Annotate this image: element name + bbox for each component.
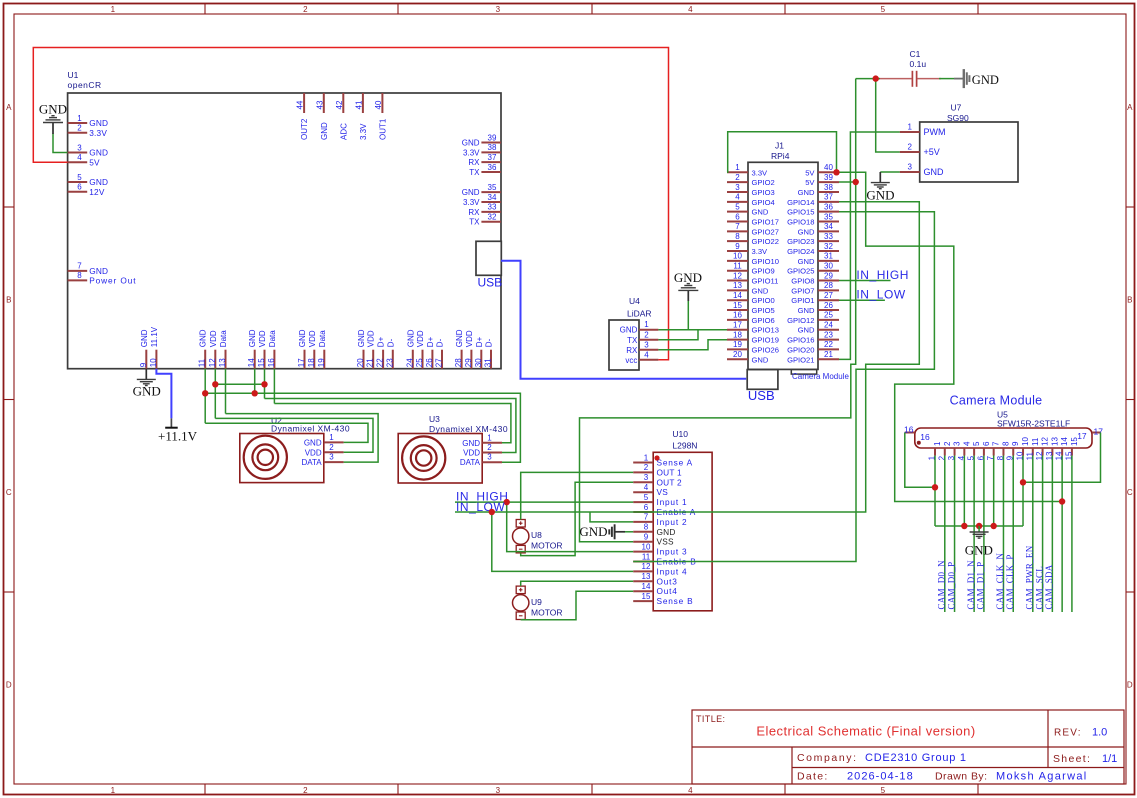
svg-text:1/1: 1/1	[1102, 753, 1117, 765]
svg-text:VDD: VDD	[305, 448, 322, 457]
wire: U5 pin 13 down	[1051, 456, 1053, 613]
svg-text:1.0: 1.0	[1092, 727, 1107, 739]
U1 pin 42 ADC	[342, 93, 344, 113]
U4 LiDAR box	[609, 320, 639, 370]
J1 pin 37 GPIO14	[818, 201, 839, 203]
svg-text:2: 2	[329, 443, 334, 452]
svg-text:Camera Module: Camera Module	[950, 394, 1043, 408]
wire: GND tie pins 11-14 and on to U3 DATA	[205, 393, 520, 462]
svg-text:36: 36	[824, 202, 833, 211]
svg-text:17: 17	[1094, 427, 1104, 437]
svg-text:21: 21	[824, 350, 833, 359]
svg-text:20: 20	[733, 350, 742, 359]
svg-text:14: 14	[733, 291, 742, 300]
svg-text:MOTOR: MOTOR	[531, 607, 562, 617]
svg-text:2026-04-18: 2026-04-18	[847, 771, 914, 783]
svg-text:32: 32	[488, 213, 497, 222]
U1 pin 7 GND	[68, 270, 88, 272]
svg-text:D+: D+	[377, 336, 386, 347]
svg-text:Company:: Company:	[797, 752, 858, 764]
svg-text:GND: GND	[89, 118, 108, 128]
svg-text:15: 15	[1070, 437, 1079, 446]
junction pin16/pin1	[932, 484, 938, 490]
J1 pin 8 GPIO22	[727, 240, 748, 242]
svg-text:1: 1	[487, 433, 492, 442]
U10 pin 12 Input 4	[633, 570, 653, 572]
svg-text:GND: GND	[462, 439, 480, 448]
svg-text:GPIO25: GPIO25	[787, 267, 814, 276]
U10 pin 8 GND	[633, 531, 653, 533]
U3 pin 1 GND	[482, 442, 502, 444]
wire: U1 pin3 GND to ground symbol	[53, 134, 68, 153]
wire: C1 right lead to GND flag	[939, 78, 954, 80]
U1 pin 15 VDD	[264, 350, 266, 369]
svg-text:13: 13	[218, 358, 227, 367]
svg-text:3.3V: 3.3V	[752, 247, 769, 256]
svg-text:5V: 5V	[805, 168, 815, 177]
svg-text:U10: U10	[672, 429, 688, 439]
U3 motor rings	[402, 436, 445, 479]
U5 pin1 polarity dot	[917, 441, 921, 445]
svg-text:18: 18	[307, 358, 316, 367]
svg-text:3: 3	[644, 473, 649, 482]
svg-text:GND: GND	[674, 270, 702, 285]
svg-text:15: 15	[733, 301, 742, 310]
J1 pin 39 5V	[818, 181, 839, 183]
J1 pin 28 GPIO7	[818, 289, 839, 291]
wire: IN_LOW branch to Input 4	[492, 512, 633, 571]
svg-text:11: 11	[1031, 437, 1040, 446]
svg-text:OUT 1: OUT 1	[657, 467, 682, 477]
svg-text:GND: GND	[462, 188, 480, 197]
svg-text:SG90: SG90	[947, 113, 969, 123]
svg-text:11: 11	[642, 552, 651, 561]
svg-text:7: 7	[644, 513, 649, 522]
svg-text:Drawn By:: Drawn By:	[935, 771, 987, 783]
svg-text:GND: GND	[462, 139, 480, 148]
svg-text:34: 34	[488, 193, 497, 202]
U10 pin 6 Enable A	[633, 511, 653, 513]
svg-text:17: 17	[297, 358, 306, 367]
J1 pin 35 GPIO18	[818, 221, 839, 223]
svg-text:26: 26	[425, 358, 434, 367]
svg-text:3: 3	[496, 786, 501, 795]
svg-text:3: 3	[907, 163, 912, 172]
svg-text:9: 9	[735, 242, 740, 251]
svg-text:2: 2	[943, 441, 952, 446]
svg-text:4: 4	[644, 350, 649, 359]
svg-text:9: 9	[139, 362, 148, 367]
svg-text:GPIO24: GPIO24	[787, 247, 814, 256]
U4 pin 2 TX	[639, 339, 658, 341]
U10 pin 3 OUT 2	[633, 481, 653, 483]
U1 pin 4 5V	[68, 161, 88, 163]
J1 pin 6 GPIO17	[727, 221, 748, 223]
wire: U1 USB to J1 USB (blue)	[501, 261, 746, 379]
wire: U5 pin 6 down	[983, 456, 985, 613]
svg-text:openCR: openCR	[68, 80, 102, 90]
U10 pin 2 OUT 1	[633, 471, 653, 473]
svg-text:1: 1	[644, 320, 649, 329]
svg-text:3.3V: 3.3V	[359, 123, 368, 140]
svg-text:J1: J1	[775, 141, 784, 151]
U10 pin 14 Out4	[633, 590, 653, 592]
svg-text:8: 8	[77, 271, 82, 280]
U5 pin 7	[993, 448, 995, 456]
J1 pin 11 GPIO9	[727, 270, 748, 272]
wire: U10 Out3 to motor U9 +	[521, 581, 634, 586]
svg-text:GPIO0: GPIO0	[752, 296, 775, 305]
J1 pin 16 GPIO6	[727, 319, 748, 321]
svg-text:33: 33	[488, 203, 497, 212]
U1 pin 19 Data	[323, 350, 325, 369]
svg-text:D-: D-	[485, 338, 494, 347]
svg-text:5V: 5V	[89, 157, 100, 167]
svg-text:6: 6	[77, 183, 82, 192]
wire: U4 GND to ground	[658, 329, 698, 331]
svg-text:2: 2	[77, 124, 82, 133]
svg-text:5: 5	[644, 493, 649, 502]
svg-text:GPIO17: GPIO17	[752, 218, 779, 227]
svg-text:Data: Data	[268, 330, 277, 347]
U4 pin 4 vcc	[639, 359, 658, 361]
svg-text:3.3V: 3.3V	[752, 168, 769, 177]
U1 pin 10 11.1V	[155, 350, 157, 369]
svg-text:GND: GND	[798, 306, 815, 315]
wire: pin15 VDD to U3 VDD	[265, 399, 516, 453]
J1 pin 17 GPIO13	[727, 329, 748, 331]
svg-text:GPIO7: GPIO7	[791, 286, 814, 295]
svg-text:Data: Data	[219, 330, 228, 347]
U5 pin 5	[973, 448, 975, 456]
svg-text:D-: D-	[436, 338, 445, 347]
U1 pin 12 VDD	[214, 350, 216, 369]
U2 pin 2 VDD	[324, 451, 344, 453]
svg-text:Electrical Schematic (Final ve: Electrical Schematic (Final version)	[756, 724, 975, 739]
svg-text:43: 43	[315, 100, 324, 109]
wire: U5 pin17 to pin10	[1023, 433, 1101, 483]
svg-text:6: 6	[735, 212, 740, 221]
svg-text:CAM_D1_N: CAM_D1_N	[966, 560, 976, 610]
svg-text:36: 36	[488, 163, 497, 172]
U2 motor rings	[244, 436, 287, 479]
svg-text:44: 44	[296, 100, 305, 109]
U1 pin 13 Data	[225, 350, 227, 369]
svg-text:Dynamixel XM-430: Dynamixel XM-430	[429, 424, 508, 434]
svg-text:2: 2	[487, 443, 492, 452]
wire: U5 pin 15 down	[1071, 456, 1073, 613]
svg-text:4: 4	[688, 5, 693, 14]
svg-text:30: 30	[824, 262, 833, 271]
svg-text:GND: GND	[133, 384, 161, 399]
svg-text:CAM_CLK_N: CAM_CLK_N	[995, 553, 1005, 610]
svg-text:11: 11	[198, 358, 207, 367]
svg-text:GPIO18: GPIO18	[787, 218, 814, 227]
U10 pin 5 Input 1	[633, 501, 653, 503]
J1 pin 31 GND	[818, 260, 839, 262]
svg-text:RPi4: RPi4	[771, 151, 790, 161]
U5 pin 16	[905, 432, 915, 434]
U1 USB connector box	[476, 241, 501, 275]
svg-text:19: 19	[733, 340, 742, 349]
svg-text:19: 19	[317, 358, 326, 367]
J1 pin 19 GPIO26	[727, 348, 748, 350]
svg-text:41: 41	[355, 100, 364, 109]
svg-text:5: 5	[881, 5, 886, 14]
svg-text:GND: GND	[199, 329, 208, 347]
motor U8	[516, 520, 525, 528]
svg-text:VDD: VDD	[463, 449, 480, 458]
J1 pin 7 GPIO27	[727, 230, 748, 232]
svg-text:U9: U9	[531, 597, 542, 607]
svg-text:35: 35	[488, 183, 497, 192]
J1 pin 22 GPIO20	[818, 348, 839, 350]
ground symbol at U1 left	[52, 123, 54, 135]
J1 pin 38 GND	[818, 191, 839, 193]
U1 pin 29 VDD	[470, 350, 472, 369]
J1 RPi4 connector box	[748, 162, 818, 369]
svg-text:CAM_D0_P: CAM_D0_P	[946, 562, 956, 610]
U1 pin 37 RX	[481, 161, 501, 163]
J1 pin 15 GPIO5	[727, 309, 748, 311]
svg-text:1: 1	[77, 114, 82, 123]
wire: U1 pin10 to +11.1V (blue)	[156, 369, 171, 419]
svg-text:GND: GND	[140, 329, 149, 347]
J1 pin 2 GPIO2	[727, 181, 748, 183]
svg-text:12V: 12V	[89, 187, 105, 197]
J1 pin 5 GND	[727, 211, 748, 213]
svg-text:22: 22	[376, 358, 385, 367]
J1 pin 13 GND	[727, 289, 748, 291]
U5 pin 9	[1012, 448, 1014, 456]
svg-text:GND: GND	[965, 543, 993, 558]
J1 pin 20 GND	[727, 358, 748, 360]
U1 pin 44 OUT2	[303, 93, 305, 113]
svg-text:CAM_D1_P: CAM_D1_P	[976, 562, 986, 610]
svg-text:16: 16	[920, 432, 930, 442]
svg-text:CAM_PWR_EN: CAM_PWR_EN	[1025, 545, 1035, 609]
svg-text:GND: GND	[89, 148, 108, 158]
svg-text:13: 13	[642, 572, 651, 581]
U1 pin 20 GND	[363, 350, 365, 369]
svg-text:31: 31	[824, 252, 833, 261]
svg-text:D: D	[1127, 681, 1133, 690]
U1 pin 39 GND	[481, 142, 501, 144]
U1 pin 35 GND	[481, 191, 501, 193]
U1 pin 23 D-	[392, 350, 394, 369]
svg-text:2: 2	[303, 786, 308, 795]
svg-text:MOTOR: MOTOR	[531, 541, 562, 551]
svg-text:RX: RX	[468, 208, 480, 217]
junction dots on Dynamixel bus	[212, 381, 218, 387]
svg-text:GPIO6: GPIO6	[752, 316, 775, 325]
svg-text:GND: GND	[455, 329, 464, 347]
wire: +5V net U1 pin4 to U4 vcc (red)	[33, 48, 668, 360]
svg-text:Sense B: Sense B	[657, 596, 694, 606]
svg-text:GND: GND	[579, 524, 607, 539]
U5 pin 6	[983, 448, 985, 456]
wire+label IN_LOW at J1 GPIO1	[839, 299, 885, 301]
wire: U10 Out4 to motor U9 -	[521, 591, 634, 620]
svg-text:10: 10	[1021, 437, 1030, 446]
U5 pin 14	[1061, 448, 1063, 456]
svg-text:CAM_CLK_P: CAM_CLK_P	[1005, 554, 1015, 609]
U5 pin 4	[963, 448, 965, 456]
U10 L298N box	[653, 452, 712, 611]
svg-text:Input 4: Input 4	[657, 566, 688, 576]
svg-text:C: C	[1127, 488, 1133, 497]
J1 pin 23 GPIO16	[818, 339, 839, 341]
svg-text:D+: D+	[475, 336, 484, 347]
wire+label IN_HIGH at J1 GPIO8	[839, 280, 891, 282]
svg-text:GND: GND	[657, 527, 676, 537]
junction IN_LOW branch	[489, 509, 495, 515]
wire: C1 to U7 +5V	[876, 79, 900, 152]
U5 pin 15	[1071, 448, 1073, 456]
U5 pin 3	[954, 448, 956, 456]
J1 pin 40 5V	[818, 171, 839, 173]
svg-text:23: 23	[824, 330, 833, 339]
svg-text:12: 12	[208, 358, 217, 367]
svg-text:GPIO26: GPIO26	[752, 345, 779, 354]
svg-text:5: 5	[735, 202, 740, 211]
svg-text:U3: U3	[429, 414, 440, 424]
svg-text:37: 37	[824, 193, 833, 202]
svg-text:A: A	[1127, 103, 1133, 112]
svg-text:15: 15	[642, 592, 651, 601]
U1 openCR main controller box	[68, 93, 501, 369]
wire: Input 2 jog to IN_LOW line	[590, 512, 633, 522]
svg-text:GPIO19: GPIO19	[752, 336, 779, 345]
svg-text:28: 28	[454, 358, 463, 367]
J1 pin 4 GPIO4	[727, 201, 748, 203]
svg-text:OUT1: OUT1	[378, 118, 387, 140]
svg-text:VDD: VDD	[209, 330, 218, 347]
svg-text:Data: Data	[318, 330, 327, 347]
svg-text:L298N: L298N	[672, 441, 697, 451]
wire: J1 GPIO15 to U10 Enable B	[633, 212, 934, 562]
svg-text:16: 16	[267, 358, 276, 367]
wire: 5V from J1 pin40 to camera pin14	[837, 172, 1063, 501]
svg-text:IN_LOW: IN_LOW	[856, 288, 905, 302]
wire: camera GND rail	[935, 525, 1023, 527]
U1 pin 18 VDD	[313, 350, 315, 369]
svg-text:GPIO14: GPIO14	[787, 198, 814, 207]
U4 pin 3 RX	[639, 349, 658, 351]
svg-text:28: 28	[824, 281, 833, 290]
U1 pin 9 GND	[145, 350, 147, 369]
junction IN_HIGH branch	[504, 499, 510, 505]
svg-text:25: 25	[824, 311, 833, 320]
svg-text:GPIO9: GPIO9	[752, 267, 775, 276]
svg-text:GND: GND	[798, 227, 815, 236]
svg-text:5: 5	[77, 173, 82, 182]
svg-text:35: 35	[824, 212, 833, 221]
svg-text:+5V: +5V	[924, 147, 940, 157]
U1 pin 2 3.3V	[68, 132, 88, 134]
svg-text:B: B	[1127, 296, 1132, 305]
J1 pin 3 GPIO3	[727, 191, 748, 193]
svg-text:Input 3: Input 3	[657, 547, 688, 557]
svg-text:TITLE:: TITLE:	[696, 714, 725, 724]
wire: pin12 VDD to U2 VDD	[215, 418, 373, 452]
svg-text:Out3: Out3	[657, 576, 678, 586]
svg-text:7: 7	[77, 262, 82, 271]
svg-text:26: 26	[824, 301, 833, 310]
svg-text:3: 3	[496, 5, 501, 14]
svg-text:Moksh Agarwal: Moksh Agarwal	[996, 771, 1088, 783]
svg-text:3.3V: 3.3V	[89, 128, 107, 138]
wire: J1 GPIO14 to U10 Enable A	[633, 202, 919, 512]
J1 pin 25 GPIO12	[818, 319, 839, 321]
U7 pin 1 PWM	[900, 131, 920, 133]
J1 pin 36 GPIO15	[818, 211, 839, 213]
svg-text:40: 40	[824, 163, 833, 172]
wire: U5 pin 8 down	[1002, 456, 1004, 613]
svg-text:5V: 5V	[805, 178, 815, 187]
svg-text:GPIO22: GPIO22	[752, 237, 779, 246]
U1 pin 14 GND	[254, 350, 256, 369]
U1 pin 32 TX	[481, 221, 501, 223]
svg-text:U4: U4	[629, 296, 640, 306]
svg-text:23: 23	[385, 358, 394, 367]
svg-text:10: 10	[642, 542, 651, 551]
U1 pin 25 VDD	[422, 350, 424, 369]
U7 pin 3 GND	[900, 171, 920, 173]
svg-text:OUT2: OUT2	[300, 118, 309, 140]
U10 pin 11 Enable B	[633, 561, 653, 563]
U1 pin 1 GND	[68, 122, 88, 124]
svg-text:VDD: VDD	[258, 330, 267, 347]
svg-text:VDD: VDD	[465, 330, 474, 347]
U1 pin 22 D+	[382, 350, 384, 369]
U5 pin 12	[1042, 448, 1044, 456]
wire: C1 net vertical (up to cap, down to VSS)	[855, 79, 857, 182]
motor U9	[516, 586, 525, 594]
svg-text:GPIO16: GPIO16	[787, 336, 814, 345]
wire: U4 TX to J1 GPIO13	[658, 330, 727, 340]
svg-text:27: 27	[824, 291, 833, 300]
junction 5V at camera pin14	[1059, 498, 1065, 504]
svg-text:GPIO15: GPIO15	[787, 208, 814, 217]
wire: J1 pin39 5V to C1 net	[839, 181, 856, 183]
U3 Dynamixel XM-430 box	[398, 434, 482, 484]
svg-text:4: 4	[962, 441, 971, 446]
wire: IN_HIGH branch to Input 3	[507, 502, 634, 551]
svg-text:8: 8	[735, 232, 740, 241]
svg-text:D: D	[6, 681, 12, 690]
U1 pin 17 GND	[304, 350, 306, 369]
svg-text:20: 20	[356, 358, 365, 367]
svg-text:21: 21	[366, 358, 375, 367]
U10 pin 4 VS	[633, 491, 653, 493]
svg-text:GND: GND	[752, 208, 769, 217]
svg-text:4: 4	[644, 483, 649, 492]
svg-text:GPIO12: GPIO12	[787, 316, 814, 325]
svg-text:Sheet:: Sheet:	[1053, 753, 1091, 765]
J1 pin 10 GPIO10	[727, 260, 748, 262]
wire: U10 GND pin8	[625, 531, 633, 533]
U3 pin 3 DATA	[482, 461, 502, 463]
svg-text:GND: GND	[620, 326, 638, 335]
svg-text:GND: GND	[89, 177, 108, 187]
svg-text:3: 3	[735, 183, 740, 192]
svg-text:Camera Module: Camera Module	[792, 372, 849, 381]
wire: C1 left lead	[856, 78, 880, 80]
wire: J1 pin1 3.3V loop to pin40	[727, 132, 837, 173]
svg-text:24: 24	[824, 321, 833, 330]
svg-text:SFW15R-2STE1LF: SFW15R-2STE1LF	[997, 419, 1070, 429]
